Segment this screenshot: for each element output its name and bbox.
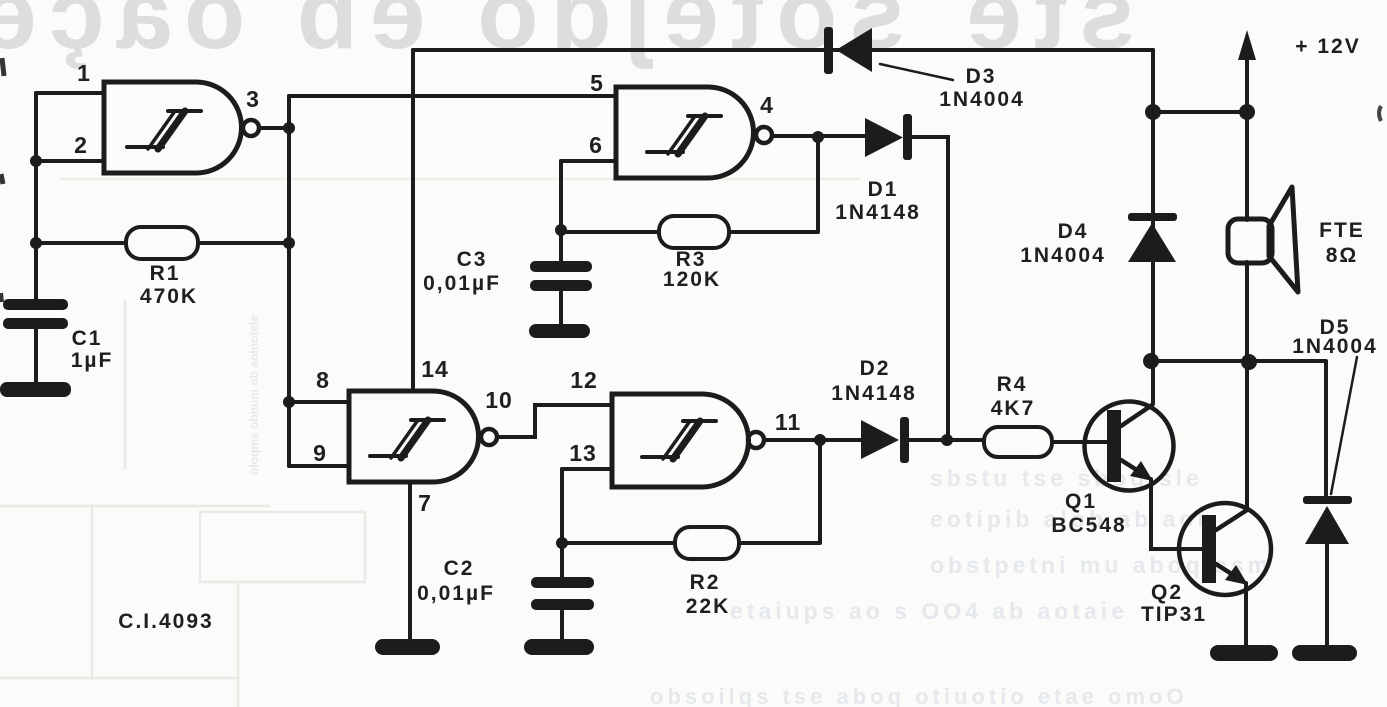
transistor Q1 emitter stroke + arrow — [1121, 460, 1143, 474]
wire +12V stem — [1245, 50, 1249, 112]
svg-text:1N4148: 1N4148 — [835, 201, 921, 224]
wire +12V branch horizontal — [1153, 110, 1247, 114]
wire node to R1 left — [36, 241, 126, 245]
wire C2 lower stub — [560, 611, 564, 642]
svg-text:D3: D3 — [966, 65, 997, 88]
svg-text:1N4004: 1N4004 — [1292, 335, 1378, 358]
wire pin2 input gate U1a — [36, 159, 104, 163]
speaker FTE cone — [1269, 187, 1298, 292]
wire U1d output to D2 — [764, 438, 861, 442]
wire U1c output jog to pin12 — [497, 405, 612, 437]
capacitor C1 — [3, 299, 68, 329]
svg-text:120K: 120K — [663, 268, 721, 291]
gate U1a body — [104, 82, 242, 173]
svg-text:FTE: FTE — [1319, 219, 1365, 242]
svg-text:Q1: Q1 — [1065, 490, 1097, 513]
svg-text:2: 2 — [74, 132, 88, 158]
capacitor C2 — [531, 577, 594, 610]
wire U1b output to D1 — [772, 134, 865, 138]
gate U1c hysteresis symbol — [370, 420, 444, 458]
resistor R4 — [984, 427, 1052, 457]
wire pin1 input gate U1a — [36, 91, 104, 95]
ground below C1 — [0, 382, 71, 397]
transistor Q2 circle — [1179, 503, 1271, 595]
transistor Q1 base bar — [1107, 410, 1121, 482]
wire left vertical net C1/R1/inputs — [34, 93, 38, 300]
diode D1 — [865, 114, 912, 160]
svg-text:+ 12V: + 12V — [1295, 35, 1360, 58]
D3 leader line — [880, 64, 953, 80]
wire D5 top stub — [1324, 362, 1328, 497]
svg-text:11: 11 — [775, 409, 801, 435]
svg-text:R2: R2 — [690, 571, 721, 594]
svg-text:0,01µF: 0,01µF — [417, 582, 495, 605]
D5 leader line — [1331, 357, 1357, 494]
svg-text:9: 9 — [313, 440, 327, 466]
wire pin9 input — [289, 464, 349, 468]
wire speaker bottom to Q2 collector — [1245, 262, 1249, 510]
transistor Q1 collector stroke — [1121, 405, 1152, 426]
svg-text:C.I.4093: C.I.4093 — [118, 610, 213, 633]
svg-text:10: 10 — [485, 387, 513, 413]
wire collector rail horizontal to D5 — [1151, 359, 1326, 363]
wire D1 cathode corner down to D2 node — [911, 137, 948, 440]
diode D5 — [1303, 496, 1352, 544]
ground below C2 — [524, 639, 594, 655]
svg-text:470K: 470K — [140, 285, 198, 308]
ground pin7 — [375, 639, 440, 655]
svg-text:5: 5 — [590, 70, 604, 96]
ground below C3 — [529, 324, 590, 338]
speaker FTE driver — [1228, 219, 1272, 263]
faint scan artifacts — [0, 179, 860, 707]
gate U1b body — [616, 87, 754, 178]
svg-text:D2: D2 — [860, 357, 891, 380]
svg-text:22K: 22K — [686, 595, 731, 618]
svg-text:0,01µF: 0,01µF — [423, 272, 501, 295]
wire R1 right to output node — [198, 241, 289, 245]
wire R4 to Q1 base — [1052, 440, 1107, 444]
diode D3 — [824, 27, 872, 74]
transistor Q2 emitter stroke + arrow — [1216, 564, 1238, 578]
svg-text:etaiups ao s OO4 ab aotai: etaiups ao s OO4 ab aotaie — [730, 598, 1128, 624]
edge marks — [2, 58, 4, 76]
wire pin8 input — [289, 400, 349, 404]
wire Q1 emitter to Q2 base — [1151, 479, 1202, 549]
gate U1c body — [349, 391, 479, 482]
wire pin6 input — [561, 159, 616, 163]
svg-text:6: 6 — [589, 132, 603, 158]
svg-text:1N4148: 1N4148 — [831, 382, 917, 405]
+12V arrowhead — [1238, 30, 1256, 60]
gate U1d output bubble pin11 — [748, 432, 764, 448]
wire Q2 emitter to ground — [1244, 583, 1248, 648]
ground D5 — [1292, 645, 1357, 661]
svg-text:C1: C1 — [72, 327, 103, 350]
svg-text:sotejdo eb oáçete: sotejdo eb oáçete — [0, 0, 905, 70]
wire main vertical node pin3/pin8/pin9 — [287, 96, 291, 466]
svg-text:4K7: 4K7 — [991, 397, 1036, 420]
wire top rail — [413, 48, 1153, 52]
wire right vertical rail D4 branch — [1151, 50, 1155, 404]
gate U1a output bubble pin3 — [243, 120, 259, 136]
ground Q2 emitter — [1210, 645, 1278, 661]
svg-text:Q2: Q2 — [1151, 581, 1183, 604]
svg-text:12: 12 — [570, 367, 598, 393]
gate U1b hysteresis symbol — [647, 116, 721, 154]
transistor Q1 circle — [1085, 402, 1174, 491]
gate U1b output bubble pin4 — [756, 127, 772, 143]
svg-text:R4: R4 — [997, 373, 1028, 396]
svg-text:4: 4 — [760, 92, 774, 118]
gate U1d body — [612, 394, 749, 487]
wire pin7 to ground — [408, 482, 412, 642]
diode D2 — [861, 417, 909, 463]
svg-text:BC548: BC548 — [1051, 514, 1126, 537]
svg-text:1: 1 — [77, 60, 91, 86]
wire speaker top — [1245, 112, 1249, 220]
svg-text:13: 13 — [569, 440, 597, 466]
wire pin6 vertical to C3 — [559, 161, 563, 262]
transistor Q2 base bar — [1202, 515, 1216, 583]
wire pin13 input — [562, 467, 612, 471]
svg-text:C3: C3 — [457, 248, 488, 271]
wire C1 lower stub — [34, 329, 38, 386]
svg-text:8Ω: 8Ω — [1326, 244, 1359, 267]
svg-text:1µF: 1µF — [71, 349, 114, 372]
resistor R1 — [126, 227, 198, 259]
svg-text:7: 7 — [418, 490, 432, 516]
capacitor C3 — [530, 261, 592, 291]
gate U1a hysteresis symbol — [127, 111, 201, 149]
svg-text:C2: C2 — [444, 557, 475, 580]
wire node to R2 left — [562, 541, 675, 545]
wire R2 right corner up to output node — [739, 440, 820, 543]
svg-text:1N4004: 1N4004 — [1020, 244, 1106, 267]
diode D4 — [1128, 213, 1177, 262]
wire D5 bottom stub to ground — [1325, 543, 1329, 648]
svg-text:1N4004: 1N4004 — [939, 88, 1025, 111]
wire node to R3 left — [561, 230, 659, 234]
gate U1c output bubble pin10 — [481, 429, 497, 445]
wire C3 lower stub — [559, 292, 563, 327]
wire pin3 to pin5 — [289, 94, 616, 98]
svg-text:8: 8 — [316, 367, 330, 393]
svg-text:TIP31: TIP31 — [1141, 603, 1207, 626]
wire R3 right to corner up — [729, 137, 818, 232]
svg-text:R1: R1 — [150, 262, 181, 285]
gate U1d hysteresis symbol — [642, 421, 716, 459]
svg-text:D1: D1 — [868, 178, 899, 201]
wire U1a output bubble to node — [259, 126, 289, 130]
transistor Q2 collector stroke — [1216, 510, 1247, 530]
svg-text:3: 3 — [246, 86, 260, 112]
resistor R2 — [675, 527, 739, 559]
wire pin14 vertical — [411, 50, 415, 391]
wire pin13 vertical to C2 — [560, 469, 564, 578]
resistor R3 — [659, 216, 729, 248]
svg-text:obsoilqs tse aboq otiuotio: obsoilqs tse aboq otiuotio etae omoO — [650, 684, 1188, 707]
svg-text:D4: D4 — [1058, 220, 1089, 243]
svg-text:ste: ste — [954, 0, 1135, 70]
svg-text:oloqms obnum ob aoinotele: oloqms obnum ob aoinotele — [247, 315, 261, 475]
svg-text:14: 14 — [421, 356, 449, 382]
wire D2 cathode to R4 — [908, 438, 984, 442]
